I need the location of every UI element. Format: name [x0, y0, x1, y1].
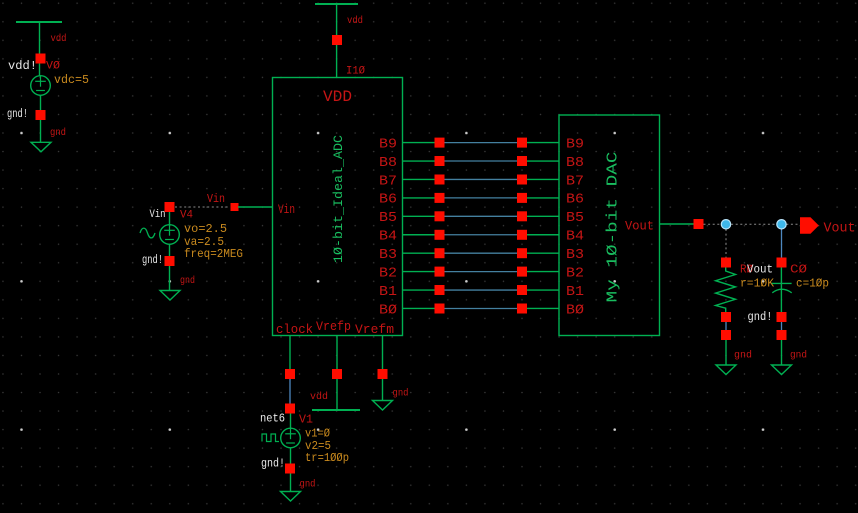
pin square V4 minus [165, 256, 175, 266]
vsource V0 [31, 76, 51, 96]
svg-text:gnd: gnd [50, 127, 66, 139]
wire C0 gnd stem [781, 340, 783, 365]
wire Vrefp to vdd [336, 379, 338, 410]
ground symbol (V0) [31, 142, 51, 152]
svg-text:BØ: BØ [566, 302, 584, 318]
pin label clock [276, 322, 313, 337]
pin square V1 minus [285, 464, 295, 474]
net label Vout (output) [824, 222, 856, 237]
pin label B3 (DAC) [566, 247, 584, 263]
label gnd (R0 ground) [734, 350, 752, 362]
pin label Vout (DAC) [625, 219, 654, 234]
svg-text:net6: net6 [260, 413, 285, 426]
instance label V0 [46, 61, 60, 73]
svg-text:I1Ø: I1Ø [346, 66, 365, 78]
svg-text:Vin: Vin [150, 209, 166, 221]
wire Vin dashed [175, 206, 230, 208]
pin label Vin (ADC) [278, 202, 295, 217]
pin label B2 (DAC) [566, 265, 584, 281]
value label tr=100p [305, 452, 349, 465]
value label vo=2.5 [184, 222, 227, 236]
wire V1 minus stem [290, 448, 292, 464]
ground symbol (Vrefm) [373, 401, 393, 411]
wire Vin to ADC [238, 206, 273, 208]
instance label C0 [790, 263, 807, 277]
pin label B2 (ADC) [379, 265, 397, 281]
svg-text:CØ: CØ [790, 263, 807, 277]
capacitor C0 [772, 268, 792, 313]
wire V0 to ground [40, 120, 42, 142]
pin square clock [285, 369, 295, 379]
wire B1 DAC stub [527, 289, 559, 291]
wire B2 ADC stub [403, 271, 436, 273]
pin square B2 left [435, 267, 445, 277]
pin label B9 (ADC) [379, 136, 397, 152]
svg-text:B8: B8 [566, 155, 584, 171]
svg-text:B8: B8 [379, 155, 397, 171]
ground symbol (C0) [772, 365, 792, 375]
value label v1=0 [305, 428, 330, 441]
wire V0 minus stem [40, 95, 42, 110]
wire B5 DAC stub [527, 215, 559, 217]
wire B2 bus [445, 271, 518, 273]
wire B6 bus [445, 197, 518, 199]
label vdd (Vrefp) [310, 391, 328, 403]
svg-text:B2: B2 [566, 265, 584, 281]
pin label B6 (DAC) [566, 192, 584, 208]
svg-text:Vrefp: Vrefp [316, 319, 351, 334]
wire junction square Vin [231, 203, 239, 211]
pin square B5 right [517, 211, 527, 221]
svg-text:tr=1ØØp: tr=1ØØp [305, 452, 349, 465]
svg-text:vdd!: vdd! [8, 59, 37, 73]
svg-text:B7: B7 [379, 173, 397, 189]
svg-text:r=1ØK: r=1ØK [740, 277, 775, 291]
wire B5 ADC stub [403, 215, 436, 217]
wire Vrefm to ground [382, 379, 384, 401]
wire R0 to gnd [725, 322, 727, 330]
power symbol vdd (ADC top) [315, 4, 358, 78]
pin label B4 (ADC) [379, 229, 397, 245]
svg-text:B5: B5 [379, 210, 397, 226]
pin square B1 left [435, 285, 445, 295]
vsource V1 [281, 428, 301, 448]
svg-text:vdd: vdd [310, 391, 328, 403]
pin square Vout [694, 219, 704, 229]
svg-text:B9: B9 [379, 136, 397, 152]
wire B9 bus [445, 142, 518, 144]
svg-text:freq=2MEG: freq=2MEG [184, 248, 243, 261]
value label freq=2MEG [184, 248, 243, 261]
svg-text:gnd!: gnd! [261, 458, 285, 471]
svg-text:vdd: vdd [347, 15, 363, 27]
svg-text:B6: B6 [566, 192, 584, 208]
output pin arrow Vout [800, 217, 819, 234]
svg-text:B9: B9 [566, 136, 584, 152]
svg-text:Vout: Vout [824, 222, 856, 237]
wire B6 ADC stub [403, 197, 436, 199]
instance label V4 [180, 210, 193, 222]
wire R0 gnd stem [725, 340, 727, 365]
wire B1 ADC stub [403, 289, 436, 291]
wire B9 DAC stub [527, 142, 559, 144]
wire Vrefm [382, 336, 384, 370]
vsource V4 [160, 225, 180, 245]
instance name 10-bit_Ideal_ADC [331, 135, 346, 263]
wire B4 DAC stub [527, 234, 559, 236]
op-amp U: My 10-bit DAC box [559, 115, 660, 336]
svg-text:vdd: vdd [51, 33, 67, 45]
pin square B3 right [517, 248, 527, 258]
pin label Vrefm [355, 322, 394, 337]
wire B6 DAC stub [527, 197, 559, 199]
wire B8 ADC stub [403, 160, 436, 162]
wire B7 bus [445, 178, 518, 180]
svg-text:gnd: gnd [393, 388, 409, 400]
svg-text:Vout: Vout [625, 219, 654, 234]
pin square Vrefp [332, 369, 342, 379]
instance label V1 [299, 414, 313, 427]
pin label B1 (ADC) [379, 284, 397, 300]
wire B1 bus [445, 289, 518, 291]
pin square B6 right [517, 193, 527, 203]
pin square B6 left [435, 193, 445, 203]
wire Vout DAC stub [660, 223, 695, 225]
pin square B1 right [517, 285, 527, 295]
pin label B5 (ADC) [379, 210, 397, 226]
svg-text:B7: B7 [566, 173, 584, 189]
wire V4 minus stem [169, 244, 171, 256]
pin label B7 (DAC) [566, 173, 584, 189]
svg-text:V4: V4 [180, 210, 193, 222]
svg-text:v1=Ø: v1=Ø [305, 428, 330, 441]
instance label R0 [740, 263, 753, 277]
wire B4 ADC stub [403, 234, 436, 236]
pin square R0 top [721, 258, 731, 268]
pin label B3 (ADC) [379, 247, 397, 263]
value label va=2.5 [184, 235, 224, 249]
pin square B0 right [517, 304, 527, 314]
svg-text:vdc=5: vdc=5 [54, 73, 89, 87]
label gnd (Vrefm) [393, 388, 409, 400]
ground symbol (V1) [281, 492, 301, 502]
pin label B0 (DAC) [566, 302, 584, 318]
svg-text:B4: B4 [566, 229, 584, 245]
pin label VDD [323, 88, 352, 106]
pin square B4 left [435, 230, 445, 240]
svg-text:gnd: gnd [180, 275, 195, 287]
svg-text:B3: B3 [379, 247, 397, 263]
svg-text:Vin: Vin [207, 192, 225, 206]
pin square B2 right [517, 267, 527, 277]
pin square C0 bottom [777, 312, 787, 322]
pin label B5 (DAC) [566, 210, 584, 226]
value label r=10K [740, 277, 775, 291]
pin square B4 right [517, 230, 527, 240]
wire B0 DAC stub [527, 307, 559, 309]
svg-text:gnd: gnd [300, 479, 316, 491]
svg-text:V1: V1 [299, 414, 313, 427]
instance label I10 [346, 66, 365, 78]
svg-text:gnd!: gnd! [7, 108, 28, 121]
pin square V1 plus [285, 404, 295, 414]
net label gnd! (V1) [261, 458, 285, 471]
wire B4 bus [445, 234, 518, 236]
wire B0 ADC stub [403, 307, 436, 309]
resistor R0 [716, 268, 736, 313]
pin square VDD [332, 35, 342, 45]
pin square B3 left [435, 248, 445, 258]
svg-text:Vrefm: Vrefm [355, 322, 394, 337]
wire R0 top dashed [725, 229, 727, 258]
pin square V4 plus [165, 202, 175, 212]
net label gnd! (C0) [748, 310, 773, 324]
svg-text:gnd: gnd [790, 350, 807, 362]
label gnd (V4 ground) [180, 275, 195, 287]
wire B0 bus [445, 307, 518, 309]
net label Vout (white, over R0) [747, 263, 773, 277]
pin square R0 bottom [721, 312, 731, 322]
wire net6 [289, 379, 291, 404]
wire clock [289, 336, 291, 370]
pin square B9 right [517, 138, 527, 148]
pin label B0 (ADC) [379, 302, 397, 318]
svg-text:c=1Øp: c=1Øp [796, 277, 829, 291]
svg-text:B4: B4 [379, 229, 397, 245]
svg-text:B3: B3 [566, 247, 584, 263]
junction node Vout-R [721, 220, 730, 229]
pin square B8 left [435, 156, 445, 166]
svg-text:clock: clock [276, 322, 313, 337]
svg-text:B6: B6 [379, 192, 397, 208]
pin square B0 left [435, 304, 445, 314]
pin label Vrefp [316, 319, 351, 334]
wire V4 top stem [169, 212, 171, 225]
svg-text:VØ: VØ [46, 61, 60, 73]
pulse symbol (V1) [262, 434, 279, 442]
pin square C0 top [777, 258, 787, 268]
wire Vout dashed [704, 223, 800, 225]
pin square B7 right [517, 175, 527, 185]
net label Vin (wire) [207, 192, 225, 206]
svg-text:VDD: VDD [323, 88, 352, 106]
wire B3 DAC stub [527, 252, 559, 254]
svg-text:va=2.5: va=2.5 [184, 235, 224, 249]
svg-text:vo=2.5: vo=2.5 [184, 222, 227, 236]
label vdd (V0 supply bar) [51, 33, 67, 45]
wire Vrefp [336, 336, 338, 370]
net label vdd! [8, 59, 37, 73]
ground symbol (R0) [716, 365, 736, 375]
svg-text:B2: B2 [379, 265, 397, 281]
net label net6 [260, 413, 285, 426]
pin square V0 minus [36, 110, 46, 120]
svg-text:Vin: Vin [278, 202, 295, 217]
svg-text:gnd!: gnd! [748, 310, 773, 324]
pin label B8 (ADC) [379, 155, 397, 171]
pin label B8 (DAC) [566, 155, 584, 171]
op-amp U: 10-bit Ideal ADC box [273, 78, 403, 336]
ground symbol (V4) [160, 291, 180, 301]
pin square V0 plus [36, 54, 46, 64]
sine symbol (V4) [140, 228, 155, 238]
pin label B1 (DAC) [566, 284, 584, 300]
svg-text:B1: B1 [566, 284, 584, 300]
pin label B9 (DAC) [566, 136, 584, 152]
pin label B4 (DAC) [566, 229, 584, 245]
label vdd (ADC top) [347, 15, 363, 27]
svg-text:1Ø-bit_Ideal_ADC: 1Ø-bit_Ideal_ADC [331, 135, 346, 263]
pin label B6 (ADC) [379, 192, 397, 208]
svg-text:B1: B1 [379, 284, 397, 300]
instance name My 10-bit DAC [605, 152, 622, 303]
net label Vin (white) [150, 209, 166, 221]
pin square B5 left [435, 211, 445, 221]
pin square B8 right [517, 156, 527, 166]
label gnd (V1 ground) [300, 479, 316, 491]
pin label B7 (ADC) [379, 173, 397, 189]
wire B2 DAC stub [527, 271, 559, 273]
net label gnd! (V0) [7, 108, 28, 121]
wire B9 ADC stub [403, 142, 436, 144]
wire B3 ADC stub [403, 252, 436, 254]
wire B5 bus [445, 215, 518, 217]
wire B7 DAC stub [527, 178, 559, 180]
wire V4 to ground [169, 266, 171, 291]
svg-text:BØ: BØ [379, 302, 397, 318]
value label v2=5 [305, 440, 331, 453]
net label gnd! (V4) [142, 254, 163, 267]
wire B8 DAC stub [527, 160, 559, 162]
wire C0 top [781, 229, 783, 258]
wire V1 top stem [290, 414, 292, 429]
wire C0 to gnd [781, 322, 783, 330]
wire V1 to ground [290, 474, 292, 492]
pin square C0 gnd terminal [777, 330, 787, 340]
svg-text:gnd: gnd [734, 350, 752, 362]
svg-text:B5: B5 [566, 210, 584, 226]
label gnd (V0 ground) [50, 127, 66, 139]
value label c=10p [796, 277, 829, 291]
svg-text:gnd!: gnd! [142, 254, 163, 267]
wire B8 bus [445, 160, 518, 162]
svg-text:Vout: Vout [747, 263, 773, 277]
pin square Vrefm [378, 369, 388, 379]
label gnd (C0 ground) [790, 350, 807, 362]
value label vdc=5 [54, 73, 89, 87]
wire B7 ADC stub [403, 178, 436, 180]
wire B3 bus [445, 252, 518, 254]
pin square R0 gnd terminal [721, 330, 731, 340]
svg-text:My 1Ø-bit DAC: My 1Ø-bit DAC [605, 152, 622, 303]
pin square B9 left [435, 138, 445, 148]
pin square B7 left [435, 175, 445, 185]
power symbol vdd (Vrefp) [312, 409, 360, 411]
power symbol vdd (V0 top) [16, 22, 62, 76]
junction node Vout-C [777, 220, 786, 229]
